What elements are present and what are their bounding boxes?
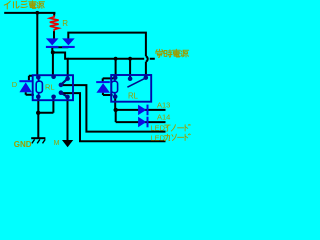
svg-text:M: M xyxy=(54,140,60,147)
svg-text:D: D xyxy=(12,80,18,89)
svg-text:LED: LED xyxy=(150,124,165,133)
svg-text:RL: RL xyxy=(128,91,139,100)
svg-text:R: R xyxy=(62,19,68,28)
svg-text:LED: LED xyxy=(150,133,165,142)
svg-text:A14: A14 xyxy=(157,112,170,121)
svg-text:GND: GND xyxy=(14,140,32,149)
svg-text:RL: RL xyxy=(45,82,55,91)
svg-text:A13: A13 xyxy=(157,101,170,110)
